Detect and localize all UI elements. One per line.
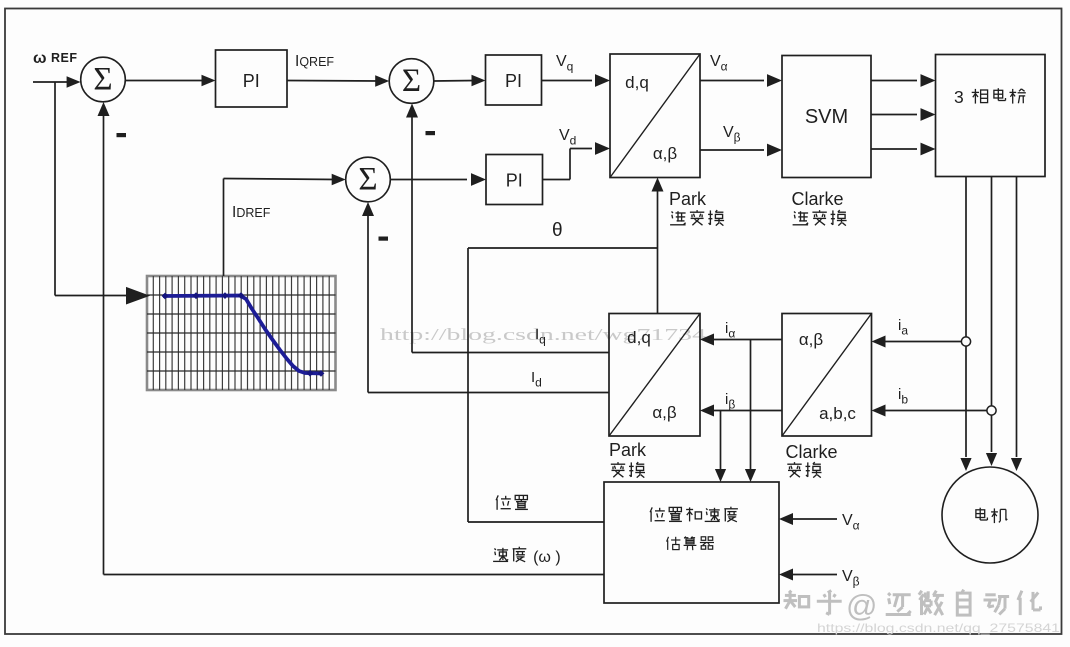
- svg-text:ω: ω: [33, 50, 47, 67]
- svg-text:Σ: Σ: [358, 162, 377, 198]
- svg-text:REF: REF: [51, 51, 78, 65]
- svg-text:α,β: α,β: [799, 330, 824, 349]
- svg-text:IQREF: IQREF: [295, 53, 334, 70]
- svg-text:Σ: Σ: [93, 62, 112, 98]
- svg-text:PI: PI: [243, 71, 260, 91]
- svg-text:3: 3: [954, 87, 964, 107]
- svg-text:d,q: d,q: [627, 328, 651, 347]
- svg-text:α,β: α,β: [652, 403, 677, 422]
- svg-text:Clarke: Clarke: [786, 442, 838, 462]
- svg-text:PI: PI: [505, 71, 522, 91]
- svg-text:@: @: [846, 588, 877, 623]
- svg-text:Park: Park: [609, 440, 647, 460]
- svg-text:PI: PI: [506, 171, 523, 191]
- svg-text:α,β: α,β: [653, 144, 678, 163]
- svg-text:a,b,c: a,b,c: [819, 404, 856, 423]
- svg-text:https://blog.csdn.net/qq_27575: https://blog.csdn.net/qq_27575841: [817, 621, 1060, 635]
- svg-text:θ: θ: [552, 220, 563, 241]
- svg-text:SVM: SVM: [805, 106, 848, 128]
- svg-text:Park: Park: [669, 189, 707, 209]
- svg-text:Σ: Σ: [402, 63, 421, 99]
- svg-text:IDREF: IDREF: [232, 204, 271, 221]
- svg-text:(ω ): (ω ): [533, 549, 561, 566]
- svg-text:Clarke: Clarke: [792, 189, 844, 209]
- svg-text:d,q: d,q: [625, 73, 649, 92]
